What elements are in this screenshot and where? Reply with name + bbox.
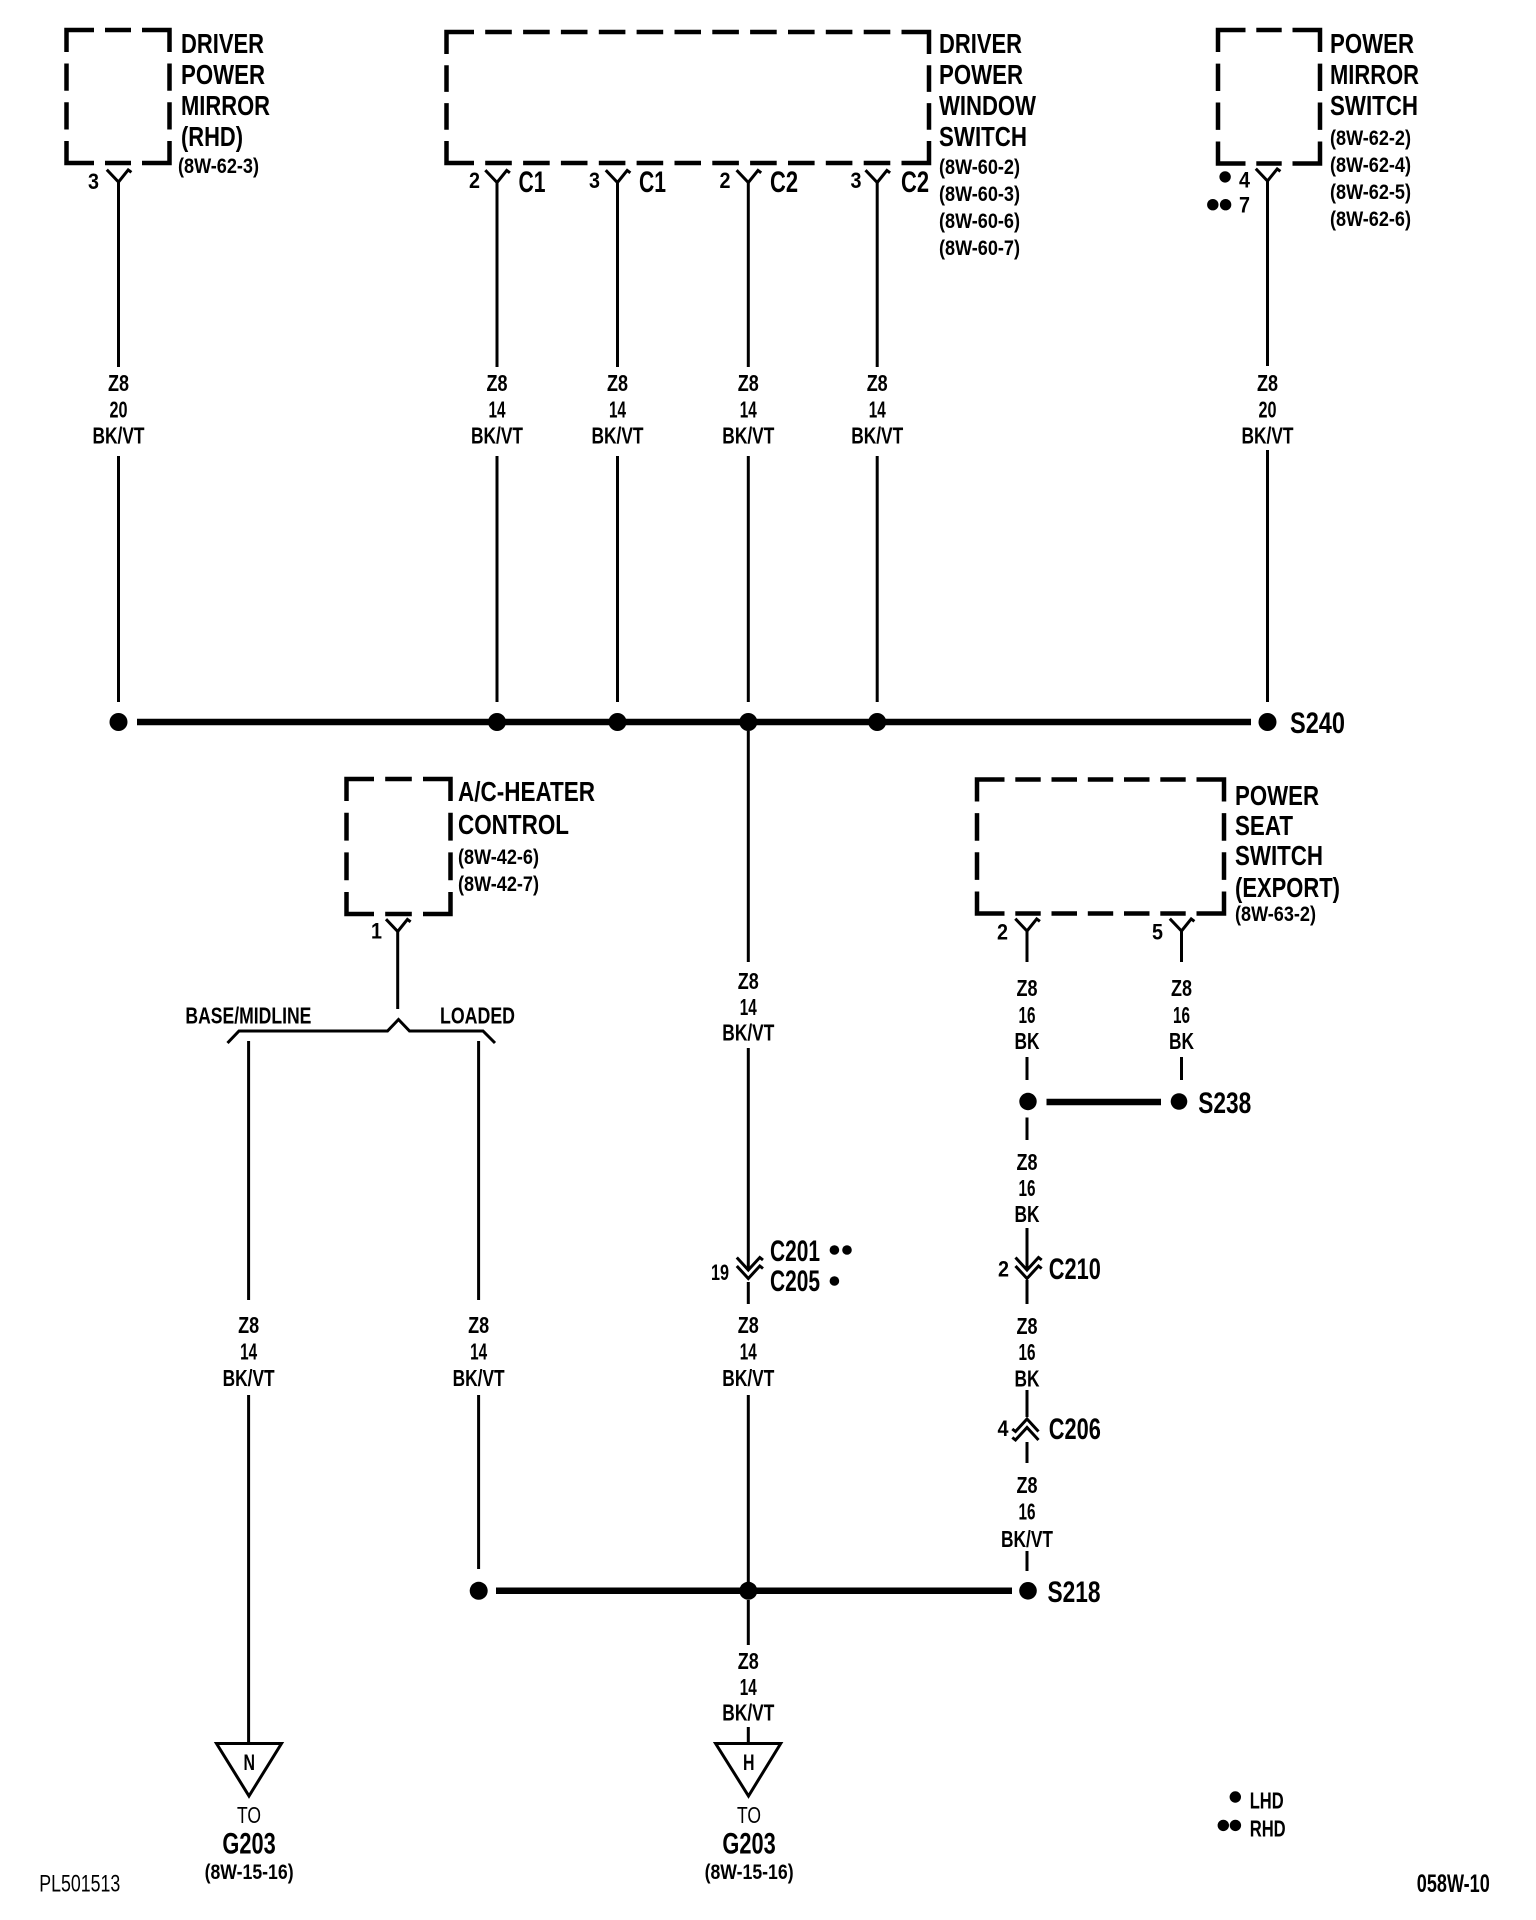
svg-text:C1: C1 <box>519 166 546 199</box>
pin 5 connector of power seat switch <box>1170 919 1195 931</box>
legend RHD <box>1218 1820 1229 1831</box>
svg-text:(8W-62-4): (8W-62-4) <box>1330 154 1411 177</box>
legend LHD <box>1230 1791 1241 1802</box>
pin 2 C1 <box>485 170 510 182</box>
svg-text:3: 3 <box>589 168 600 193</box>
connector C206 in-line <box>1012 1419 1038 1432</box>
wire label Z8 16 BK (seat pin 2 wire) <box>1015 975 1040 1054</box>
svg-text:Z8: Z8 <box>1171 975 1192 1001</box>
svg-text:BK: BK <box>1169 1028 1194 1054</box>
box A/C-HEATER CONTROL <box>347 779 451 914</box>
svg-text:5: 5 <box>1152 920 1163 945</box>
svg-text:LHD: LHD <box>1250 1787 1284 1813</box>
splice bus S218 <box>496 1588 1012 1595</box>
svg-text:TO: TO <box>237 1802 261 1828</box>
svg-text:058W-10: 058W-10 <box>1417 1870 1490 1898</box>
svg-text:A/C-HEATER: A/C-HEATER <box>458 776 595 807</box>
svg-text:POWER: POWER <box>1235 780 1319 811</box>
wire center S240 to S218 <box>747 731 750 1582</box>
svg-text:19: 19 <box>711 1260 729 1285</box>
pin 1 connector of a/c-heater control <box>386 919 411 931</box>
svg-text:16: 16 <box>1019 1499 1036 1525</box>
box POWER SEAT SWITCH (EXPORT) <box>977 780 1224 914</box>
svg-text:S218: S218 <box>1048 1576 1101 1609</box>
svg-text:(8W-42-6): (8W-42-6) <box>458 846 539 869</box>
svg-text:MIRROR: MIRROR <box>181 90 270 121</box>
svg-text:MIRROR: MIRROR <box>1330 59 1419 90</box>
svg-text:Z8: Z8 <box>738 1648 759 1674</box>
svg-text:Z8: Z8 <box>487 370 508 396</box>
svg-text:(8W-62-2): (8W-62-2) <box>1330 127 1411 150</box>
wire pin3 mirror to S240 <box>117 182 120 702</box>
svg-text:2: 2 <box>997 920 1008 945</box>
svg-text:BK/VT: BK/VT <box>722 1365 774 1391</box>
wire label Z8 14 BK/VT (pin 3 C1 wire) <box>592 370 644 449</box>
svg-text:SWITCH: SWITCH <box>1235 840 1323 871</box>
svg-text:Z8: Z8 <box>738 370 759 396</box>
svg-text:Z8: Z8 <box>1017 975 1038 1001</box>
svg-text:2: 2 <box>720 168 731 193</box>
svg-text:G203: G203 <box>722 1828 775 1861</box>
svg-text:4: 4 <box>1239 168 1251 193</box>
svg-text:(8W-63-2): (8W-63-2) <box>1235 903 1316 926</box>
svg-text:C2: C2 <box>770 166 798 199</box>
svg-text:C210: C210 <box>1049 1253 1101 1286</box>
svg-text:Z8: Z8 <box>738 968 759 994</box>
svg-text:Z8: Z8 <box>738 1312 759 1338</box>
svg-text:BK/VT: BK/VT <box>851 423 903 449</box>
wire label Z8 14 BK/VT (center wire below C205) <box>722 1312 774 1391</box>
wire LOADED branch <box>477 1041 480 1569</box>
wire label Z8 20 BK/VT (mirror wire) <box>93 370 145 449</box>
svg-text:POWER: POWER <box>939 59 1023 90</box>
wire label Z8 14 BK/VT (center wire above C201) <box>722 968 774 1045</box>
svg-text:N: N <box>244 1750 256 1775</box>
svg-text:(8W-15-16): (8W-15-16) <box>705 1861 794 1884</box>
svg-text:C206: C206 <box>1049 1413 1101 1446</box>
svg-text:SWITCH: SWITCH <box>1330 90 1418 121</box>
wire label Z8 20 BK/VT (mirror switch wire) <box>1242 370 1294 449</box>
svg-text:BK/VT: BK/VT <box>93 423 145 449</box>
wire pin2 C2 to S240 <box>747 183 750 703</box>
wire a/c pin1 down to option split <box>396 932 399 1010</box>
svg-text:4: 4 <box>998 1416 1010 1441</box>
svg-text:(8W-15-16): (8W-15-16) <box>205 1861 294 1884</box>
svg-text:BK/VT: BK/VT <box>1001 1526 1053 1552</box>
svg-text:7: 7 <box>1239 193 1250 218</box>
wire label Z8 16 BK (S238 to C210) <box>1015 1149 1040 1227</box>
svg-text:BK/VT: BK/VT <box>722 1019 774 1045</box>
svg-text:14: 14 <box>740 994 757 1020</box>
wire label Z8 16 BK/VT (C206 to S218) <box>1001 1472 1053 1552</box>
wire S218 down to H ground arrow <box>747 1600 750 1743</box>
svg-text:14: 14 <box>470 1339 487 1365</box>
svg-text:3: 3 <box>851 168 862 193</box>
wire label Z8 14 BK/VT (pin 2 C2 wire) <box>722 370 774 449</box>
svg-text:DRIVER: DRIVER <box>939 28 1022 59</box>
box POWER MIRROR SWITCH <box>1218 30 1320 164</box>
svg-text:(8W-60-6): (8W-60-6) <box>939 210 1020 233</box>
option split BASE/MIDLINE vs LOADED <box>228 1020 496 1044</box>
svg-text:Z8: Z8 <box>238 1312 259 1338</box>
svg-text:BK/VT: BK/VT <box>471 423 523 449</box>
pin 2 C2 <box>737 170 762 182</box>
svg-text:(8W-60-7): (8W-60-7) <box>939 237 1020 260</box>
svg-text:20: 20 <box>1259 397 1277 423</box>
svg-text:16: 16 <box>1173 1002 1190 1028</box>
svg-text:16: 16 <box>1019 1175 1036 1201</box>
svg-text:2: 2 <box>469 168 480 193</box>
wire BASE/MIDLINE branch <box>247 1041 250 1743</box>
wire seat pin5 to S238 <box>1180 931 1183 1080</box>
splice S238 <box>1047 1099 1162 1106</box>
wire pin2 C1 to S240 <box>496 183 499 703</box>
svg-text:SEAT: SEAT <box>1235 810 1293 841</box>
svg-text:BK: BK <box>1015 1366 1040 1392</box>
svg-text:Z8: Z8 <box>108 370 129 396</box>
svg-text:H: H <box>743 1750 755 1775</box>
svg-text:16: 16 <box>1019 1002 1036 1028</box>
svg-text:C205: C205 <box>770 1265 820 1298</box>
svg-text:BK/VT: BK/VT <box>722 1699 774 1725</box>
svg-text:POWER: POWER <box>181 59 265 90</box>
svg-text:14: 14 <box>240 1339 257 1365</box>
svg-text:14: 14 <box>740 397 757 423</box>
svg-text:Z8: Z8 <box>1257 370 1278 396</box>
svg-text:CONTROL: CONTROL <box>458 809 569 840</box>
svg-text:C2: C2 <box>901 166 929 199</box>
svg-text:BASE/MIDLINE: BASE/MIDLINE <box>185 1002 311 1028</box>
wire label Z8 14 BK/VT (pin 3 C2 wire) <box>851 370 903 449</box>
svg-text:SWITCH: SWITCH <box>939 121 1027 152</box>
wire label Z8 14 BK/VT (loaded branch) <box>453 1312 505 1391</box>
svg-text:S240: S240 <box>1290 707 1345 740</box>
wire C210 to C206 <box>1026 1280 1029 1417</box>
svg-text:LOADED: LOADED <box>440 1002 515 1028</box>
wire S238 down to C210 <box>1026 1118 1029 1270</box>
svg-text:BK/VT: BK/VT <box>592 423 644 449</box>
box DRIVER POWER WINDOW SWITCH <box>447 32 930 163</box>
svg-text:BK/VT: BK/VT <box>453 1365 505 1391</box>
svg-text:TO: TO <box>737 1802 761 1828</box>
wire label Z8 14 BK/VT (pin 2 C1 wire) <box>471 370 523 449</box>
svg-text:1: 1 <box>371 919 382 944</box>
svg-text:14: 14 <box>489 397 506 423</box>
wire C206 to S218 <box>1026 1442 1029 1571</box>
svg-text:2: 2 <box>998 1257 1009 1282</box>
off-page arrow N to G203 <box>217 1744 282 1797</box>
svg-text:Z8: Z8 <box>867 370 888 396</box>
pin 2 connector of power seat switch <box>1015 919 1040 931</box>
svg-text:POWER: POWER <box>1330 28 1414 59</box>
svg-text:BK/VT: BK/VT <box>223 1365 275 1391</box>
svg-text:(8W-42-7): (8W-42-7) <box>458 873 539 896</box>
svg-text:WINDOW: WINDOW <box>939 90 1036 121</box>
box DRIVER POWER MIRROR (RHD) <box>67 30 170 163</box>
svg-text:BK: BK <box>1015 1201 1040 1227</box>
pin 3 C1 <box>606 170 631 182</box>
svg-text:BK/VT: BK/VT <box>722 423 774 449</box>
svg-text:(8W-62-6): (8W-62-6) <box>1330 208 1411 231</box>
svg-text:(RHD): (RHD) <box>181 121 243 152</box>
pin 4 / 7 connector of power mirror switch <box>1256 169 1281 181</box>
wire power mirror switch to S240 <box>1266 181 1269 702</box>
svg-text:Z8: Z8 <box>468 1312 489 1338</box>
wire pin3 C2 to S240 <box>876 183 879 703</box>
splice bus S240 <box>137 719 1251 726</box>
svg-text:DRIVER: DRIVER <box>181 28 264 59</box>
wire label Z8 14 BK/VT (S218 to ground arrow) <box>722 1648 774 1725</box>
svg-text:Z8: Z8 <box>1017 1313 1038 1339</box>
svg-text:3: 3 <box>88 169 99 194</box>
svg-text:C201: C201 <box>770 1235 820 1268</box>
pin 3 C2 <box>866 170 891 182</box>
wire label Z8 16 BK (seat pin 5 wire) <box>1169 975 1194 1054</box>
svg-text:C1: C1 <box>639 166 666 199</box>
svg-text:(8W-62-5): (8W-62-5) <box>1330 181 1411 204</box>
svg-text:14: 14 <box>740 1674 757 1700</box>
connector C210 in-line <box>1016 1258 1042 1271</box>
svg-text:(8W-60-2): (8W-60-2) <box>939 156 1020 179</box>
svg-text:(8W-60-3): (8W-60-3) <box>939 183 1020 206</box>
wire label Z8 16 BK (C210 to C206) <box>1015 1313 1040 1392</box>
svg-text:20: 20 <box>110 397 128 423</box>
pin 3 connector of driver power mirror <box>107 170 132 182</box>
wire seat pin2 to S238 <box>1026 931 1029 1080</box>
svg-text:(8W-62-3): (8W-62-3) <box>178 155 259 178</box>
wire label Z8 14 BK/VT (base/midline branch) <box>223 1312 275 1391</box>
off-page arrow H to G203 <box>716 1744 781 1797</box>
svg-text:RHD: RHD <box>1250 1816 1286 1842</box>
svg-text:14: 14 <box>609 397 626 423</box>
wire pin3 C1 to S240 <box>616 183 619 703</box>
connector C201/C205 in-line <box>737 1258 763 1271</box>
svg-text:G203: G203 <box>222 1828 275 1861</box>
svg-text:Z8: Z8 <box>1017 1472 1038 1498</box>
svg-text:Z8: Z8 <box>1017 1149 1038 1175</box>
svg-text:Z8: Z8 <box>607 370 628 396</box>
svg-text:16: 16 <box>1019 1339 1036 1365</box>
svg-text:BK: BK <box>1015 1028 1040 1054</box>
svg-text:PL501513: PL501513 <box>39 1870 120 1897</box>
svg-text:(EXPORT): (EXPORT) <box>1235 872 1340 903</box>
svg-text:S238: S238 <box>1198 1087 1251 1120</box>
svg-text:14: 14 <box>869 397 886 423</box>
svg-text:14: 14 <box>740 1339 757 1365</box>
svg-text:BK/VT: BK/VT <box>1242 423 1294 449</box>
